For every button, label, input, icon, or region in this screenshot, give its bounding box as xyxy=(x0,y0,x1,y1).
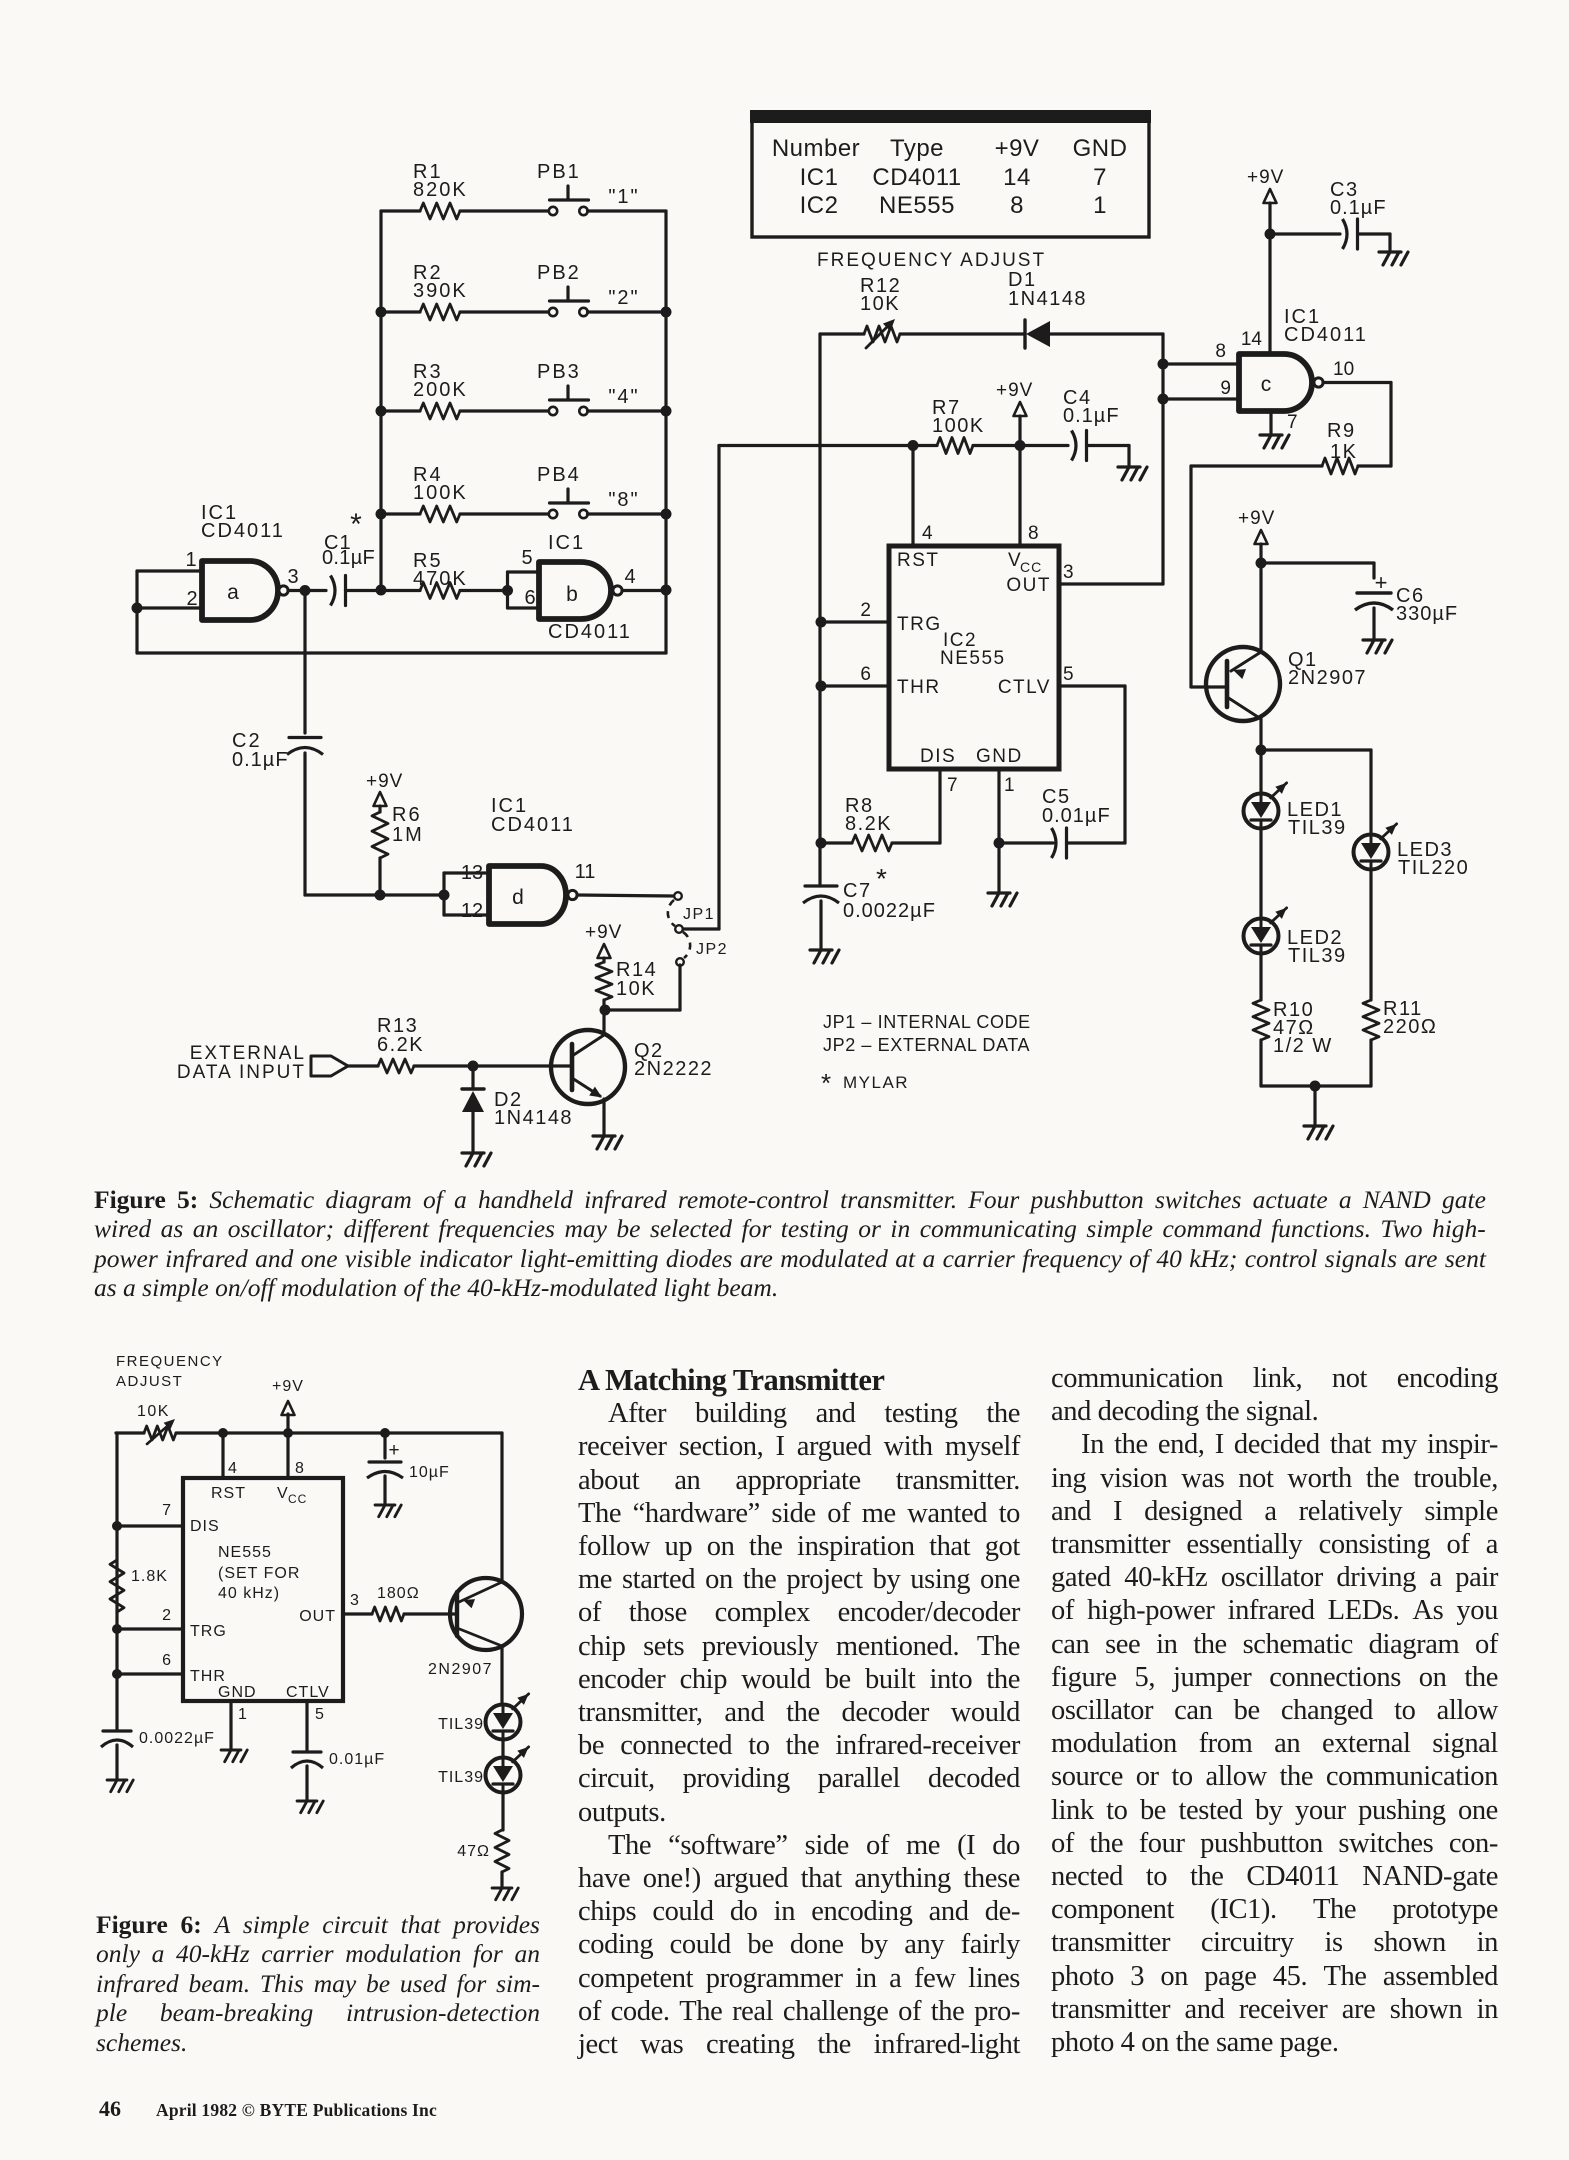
svg-text:8: 8 xyxy=(1028,523,1039,544)
svg-text:DIS: DIS xyxy=(920,746,956,767)
svg-text:CTLV: CTLV xyxy=(286,1684,330,1701)
fig6 pin8 stub xyxy=(288,1433,304,1478)
led LED1 xyxy=(1244,783,1347,839)
svg-text:OUT: OUT xyxy=(299,1608,336,1625)
svg-text:13: 13 xyxy=(461,862,483,884)
svg-text:FREQUENCY ADJUST: FREQUENCY ADJUST xyxy=(817,250,1046,271)
svg-text:+: + xyxy=(388,1440,399,1461)
svg-text:MYLAR: MYLAR xyxy=(843,1073,909,1092)
fig6 ground 0.01uF xyxy=(297,1800,317,1803)
svg-text:14: 14 xyxy=(1241,329,1263,350)
svg-text:0.1µF: 0.1µF xyxy=(1063,405,1120,427)
svg-text:"8": "8" xyxy=(608,489,639,511)
svg-text:DIS: DIS xyxy=(190,1518,220,1535)
svg-text:0.0022µF: 0.0022µF xyxy=(139,1730,215,1747)
svg-text:8: 8 xyxy=(1010,192,1024,219)
+9V supply R14 xyxy=(585,922,622,962)
transistor Q1 xyxy=(1206,647,1367,721)
ground C4 xyxy=(1118,465,1140,468)
resistor R2 xyxy=(381,262,549,320)
svg-text:RST: RST xyxy=(211,1485,246,1502)
svg-text:5: 5 xyxy=(521,547,532,569)
wire left bus xyxy=(379,211,382,590)
svg-text:9: 9 xyxy=(1220,378,1231,399)
svg-text:CTLV: CTLV xyxy=(998,677,1051,698)
svg-text:0.01µF: 0.01µF xyxy=(1042,805,1111,827)
+9V supply nand-c xyxy=(1247,167,1284,354)
svg-text:CD4011: CD4011 xyxy=(201,520,285,542)
svg-text:THR: THR xyxy=(897,677,941,698)
wire C5 to CTLV xyxy=(1123,686,1126,843)
svg-text:CD4011: CD4011 xyxy=(491,814,575,836)
fig6 pin6 THR wire xyxy=(112,1652,183,1679)
footer xyxy=(99,2096,437,2122)
resistor R8 xyxy=(816,795,941,851)
led LED2 xyxy=(1244,908,1347,967)
ground C3 xyxy=(1379,250,1401,253)
led LED3 xyxy=(1354,824,1470,879)
wire PB1 to right bus xyxy=(588,209,667,212)
diode D1 xyxy=(1008,269,1163,348)
fig6 transistor 2N2907 xyxy=(428,1578,522,1678)
fig6 resistor 1.8K xyxy=(110,1560,168,1612)
fig6 left bus xyxy=(115,1433,118,1730)
svg-text:0.01µF: 0.01µF xyxy=(329,1751,385,1768)
wire Q2 emitter xyxy=(602,1099,605,1134)
svg-text:2N2222: 2N2222 xyxy=(634,1058,713,1080)
svg-text:1: 1 xyxy=(238,1706,247,1723)
fig6 capacitor 0.01uF xyxy=(291,1751,385,1799)
svg-text:JP2 – EXTERNAL DATA: JP2 – EXTERNAL DATA xyxy=(823,1035,1030,1055)
middle column xyxy=(578,1364,1020,2061)
svg-text:220Ω: 220Ω xyxy=(1383,1016,1437,1038)
svg-text:11: 11 xyxy=(575,861,596,883)
svg-text:JP1: JP1 xyxy=(683,906,715,923)
external data input flag xyxy=(177,1043,348,1083)
figure 6 caption xyxy=(96,1910,540,2057)
svg-text:ADJUST: ADJUST xyxy=(116,1373,183,1390)
svg-text:EXTERNAL: EXTERNAL xyxy=(190,1043,306,1064)
wire 555 left bus xyxy=(818,622,821,886)
svg-text:TIL220: TIL220 xyxy=(1398,857,1469,879)
wire C2 to nand-d xyxy=(305,890,450,901)
fig6 label frequency adjust xyxy=(116,1353,224,1390)
parts table text xyxy=(772,135,1128,219)
svg-text:+9V: +9V xyxy=(366,771,403,792)
svg-text:100K: 100K xyxy=(413,482,468,504)
fig6 led TIL39 upper xyxy=(438,1694,529,1740)
svg-text:4: 4 xyxy=(624,566,635,588)
svg-text:4: 4 xyxy=(228,1460,237,1477)
note mylar xyxy=(821,1068,909,1098)
fig6 potentiometer 10K xyxy=(116,1403,502,1444)
svg-text:8: 8 xyxy=(1215,341,1226,362)
svg-text:820K: 820K xyxy=(413,179,468,201)
svg-text:470K: 470K xyxy=(413,568,468,590)
svg-text:(SET FOR: (SET FOR xyxy=(218,1565,300,1582)
ground pin1 xyxy=(988,843,1017,906)
svg-text:RST: RST xyxy=(897,550,940,571)
svg-text:10K: 10K xyxy=(137,1403,170,1420)
wire nand-a output node 3 xyxy=(288,585,326,596)
nand gate IC1d xyxy=(444,795,595,924)
svg-text:390K: 390K xyxy=(413,280,468,302)
svg-text:JP2: JP2 xyxy=(696,941,728,958)
svg-text:1.8K: 1.8K xyxy=(131,1568,168,1585)
fig6 +9V supply xyxy=(272,1378,304,1438)
fig6 pin3 OUT wire and 180ohm xyxy=(343,1585,457,1621)
wire nand-d output 11 xyxy=(577,895,674,896)
pin 7 DIS stub xyxy=(940,769,958,843)
fig6 resistor 47ohm xyxy=(457,1793,509,1887)
svg-text:8.2K: 8.2K xyxy=(845,813,892,835)
capacitor C6 xyxy=(1261,563,1458,638)
fig6 NE555 labels xyxy=(190,1485,336,1701)
svg-text:TIL39: TIL39 xyxy=(438,1716,484,1733)
svg-text:NE555: NE555 xyxy=(879,192,955,219)
ground D2 xyxy=(462,1151,484,1154)
ground C7 xyxy=(810,948,832,951)
svg-text:1: 1 xyxy=(1004,775,1015,796)
pushbutton PB2 xyxy=(537,262,640,316)
svg-text:2: 2 xyxy=(860,600,871,621)
+9V supply Q1 xyxy=(1238,508,1275,652)
pin 1 GND stub xyxy=(994,769,1015,849)
svg-text:+9V: +9V xyxy=(996,380,1033,401)
svg-text:GND: GND xyxy=(1073,135,1128,162)
svg-text:3: 3 xyxy=(1063,562,1074,583)
fig6 wire between leds xyxy=(501,1740,504,1758)
resistor R9 xyxy=(1191,420,1391,474)
svg-text:+9V: +9V xyxy=(585,922,622,943)
svg-text:180Ω: 180Ω xyxy=(377,1585,420,1602)
ground LED chain xyxy=(1304,1124,1326,1127)
fig6 wire emitter to +9V rail xyxy=(500,1433,503,1582)
svg-text:12: 12 xyxy=(461,900,483,922)
wire JP2 to Q2 collector node xyxy=(605,965,680,1010)
fig6 pin4 stub xyxy=(218,1428,237,1478)
svg-text:10K: 10K xyxy=(860,293,900,315)
svg-text:+: + xyxy=(1375,570,1388,595)
svg-text:NE555: NE555 xyxy=(940,648,1006,669)
svg-text:8: 8 xyxy=(295,1460,304,1477)
wire PB2 to right bus xyxy=(588,310,667,313)
potentiometer R12 xyxy=(820,275,1025,348)
pin 6 THR wire xyxy=(816,664,890,692)
wire jumper line to R7 xyxy=(719,444,913,447)
svg-text:1N4148: 1N4148 xyxy=(1008,288,1087,310)
wire nand-c output 10 xyxy=(1323,383,1391,467)
svg-text:CC: CC xyxy=(1020,559,1042,575)
fig6 ground 47ohm xyxy=(492,1887,512,1890)
svg-text:3: 3 xyxy=(287,566,298,588)
fig6 wire collector to LEDs xyxy=(500,1646,503,1705)
wire LED bottoms xyxy=(1261,1040,1371,1124)
fig6 ground pin1 xyxy=(221,1749,241,1752)
svg-text:Number: Number xyxy=(772,135,860,162)
svg-text:PB3: PB3 xyxy=(537,361,581,383)
svg-text:FREQUENCY: FREQUENCY xyxy=(116,1353,224,1370)
wire Q2 collector xyxy=(602,1010,605,1035)
svg-text:1: 1 xyxy=(185,549,196,571)
svg-text:CD4011: CD4011 xyxy=(872,164,961,191)
svg-text:7: 7 xyxy=(1093,164,1107,191)
pin 5 CTLV wire xyxy=(1059,664,1125,686)
svg-text:10: 10 xyxy=(1333,359,1354,380)
fig6 NE555 box xyxy=(183,1478,343,1701)
svg-text:1/2 W: 1/2 W xyxy=(1273,1035,1333,1057)
wire R12 left leg down to 555 bus xyxy=(818,334,821,622)
fig6 pin5 CTLV stub xyxy=(307,1701,324,1751)
svg-text:IC1: IC1 xyxy=(548,532,585,554)
svg-text:0.1µF: 0.1µF xyxy=(232,749,289,771)
svg-text:1K: 1K xyxy=(1330,441,1357,463)
svg-text:THR: THR xyxy=(190,1668,226,1685)
svg-text:IC2: IC2 xyxy=(800,192,839,219)
wire R9 to Q1 base xyxy=(1191,466,1227,687)
svg-text:14: 14 xyxy=(1003,164,1031,191)
svg-text:*: * xyxy=(876,863,887,894)
wire PB4 to right bus xyxy=(588,512,667,515)
svg-text:6: 6 xyxy=(524,587,535,609)
pin 3 OUT wire xyxy=(1059,562,1163,584)
wire nand-a inputs xyxy=(132,571,203,653)
wire Q1 collector node xyxy=(1256,719,1372,835)
svg-text:CC: CC xyxy=(288,1492,307,1506)
junction dots left bus xyxy=(376,307,387,596)
pushbutton PB4 xyxy=(537,464,640,518)
svg-text:+9V: +9V xyxy=(1247,167,1284,188)
nand gate IC1a xyxy=(185,502,298,620)
+9V supply 555 xyxy=(996,380,1033,451)
capacitor C5 xyxy=(999,786,1125,858)
capacitor C2 xyxy=(232,730,323,895)
jumper JP1 xyxy=(668,892,715,926)
parts table frame xyxy=(752,112,1149,237)
pin 4 stub xyxy=(913,446,933,547)
svg-text:*: * xyxy=(350,508,362,541)
jumper JP2 xyxy=(675,925,728,966)
resistor R6 xyxy=(372,804,424,895)
svg-text:2N2907: 2N2907 xyxy=(1288,667,1367,689)
svg-text:TIL39: TIL39 xyxy=(438,1769,484,1786)
resistor R4 xyxy=(381,464,549,522)
ground C6 xyxy=(1363,638,1385,641)
+9V supply R6 xyxy=(366,771,403,812)
pin 2 TRG wire xyxy=(816,600,890,628)
svg-text:NE555: NE555 xyxy=(218,1544,272,1561)
ic IC2 NE555 box xyxy=(889,546,1059,769)
fig6 ground 10uF xyxy=(375,1504,395,1507)
figure 5 caption xyxy=(94,1185,1486,1303)
parts table header bar xyxy=(750,110,1151,123)
svg-text:100K: 100K xyxy=(932,415,985,437)
nand gate IC1c xyxy=(1215,306,1367,433)
right column xyxy=(1051,1362,1498,2059)
wire right bus xyxy=(664,211,667,653)
svg-text:PB1: PB1 xyxy=(537,161,581,183)
svg-text:0.1µF: 0.1µF xyxy=(1330,197,1387,219)
svg-text:CD4011: CD4011 xyxy=(548,621,632,643)
wire D1 to NAND c inputs and 555 OUT xyxy=(1158,334,1240,584)
svg-text:1N4148: 1N4148 xyxy=(494,1107,573,1129)
resistor R14 xyxy=(596,959,657,1010)
svg-text:TIL39: TIL39 xyxy=(1288,945,1347,967)
pushbutton PB1 xyxy=(537,161,640,215)
feedback wire bottom loop xyxy=(137,651,666,654)
transistor Q2 xyxy=(551,1030,713,1104)
svg-text:1M: 1M xyxy=(392,824,424,846)
svg-text:1: 1 xyxy=(1093,192,1107,219)
resistor R5 xyxy=(381,550,508,599)
svg-text:10µF: 10µF xyxy=(409,1464,450,1481)
pin 8 stub xyxy=(1020,446,1039,547)
svg-text:40 kHz): 40 kHz) xyxy=(218,1585,280,1602)
svg-text:+9V: +9V xyxy=(1238,508,1275,529)
svg-text:"4": "4" xyxy=(608,386,639,408)
svg-text:5: 5 xyxy=(1063,664,1074,685)
wire R13 to Q2 base xyxy=(468,1061,573,1072)
wire nand-b output to bus xyxy=(622,589,666,592)
fig6 pin7 DIS wire xyxy=(112,1502,183,1531)
fig6 capacitor 10uF xyxy=(367,1428,450,1503)
resistor R11 xyxy=(1363,870,1437,1041)
diode D2 xyxy=(462,1066,573,1151)
svg-text:a: a xyxy=(227,581,239,604)
svg-text:330µF: 330µF xyxy=(1396,603,1458,625)
resistor R1 xyxy=(381,161,549,219)
svg-text:c: c xyxy=(1261,373,1272,396)
wire LED1 to LED2 xyxy=(1259,829,1262,919)
svg-text:V: V xyxy=(277,1485,289,1502)
junction dots right bus xyxy=(661,307,672,596)
svg-text:7: 7 xyxy=(1287,412,1298,433)
capacitor C4 xyxy=(1020,387,1129,465)
svg-text:200K: 200K xyxy=(413,379,468,401)
fig6 capacitor 0.0022uF xyxy=(101,1730,215,1778)
fig6 ground left xyxy=(107,1779,127,1782)
svg-text:JP1 – INTERNAL CODE: JP1 – INTERNAL CODE xyxy=(823,1012,1031,1032)
svg-text:6: 6 xyxy=(860,664,871,685)
svg-text:*: * xyxy=(821,1068,831,1098)
svg-text:5: 5 xyxy=(315,1706,324,1723)
capacitor C7 xyxy=(803,863,936,948)
svg-text:+9V: +9V xyxy=(272,1378,304,1395)
svg-text:GND: GND xyxy=(976,746,1023,767)
fig6 pin2 TRG wire xyxy=(112,1607,183,1634)
svg-text:d: d xyxy=(512,886,524,909)
svg-text:b: b xyxy=(566,583,578,606)
pin 7 ground nand-c xyxy=(1260,411,1289,448)
svg-text:2N2907: 2N2907 xyxy=(428,1661,493,1678)
svg-text:IC1: IC1 xyxy=(800,164,839,191)
svg-text:Type: Type xyxy=(890,135,944,162)
capacitor C3 xyxy=(1270,179,1390,250)
nand gate IC1b xyxy=(502,532,636,643)
svg-text:CD4011: CD4011 xyxy=(1284,324,1368,346)
svg-text:R6: R6 xyxy=(392,804,422,826)
svg-text:DATA INPUT: DATA INPUT xyxy=(177,1062,306,1083)
svg-text:PB2: PB2 xyxy=(537,262,581,284)
svg-text:10K: 10K xyxy=(616,978,656,1000)
svg-text:3: 3 xyxy=(350,1592,359,1609)
svg-text:0.1µF: 0.1µF xyxy=(322,547,375,569)
ground Q2 emitter xyxy=(593,1134,615,1137)
svg-text:6.2K: 6.2K xyxy=(377,1034,424,1056)
pushbutton PB3 xyxy=(537,361,640,415)
svg-text:GND: GND xyxy=(218,1684,257,1701)
svg-text:R9: R9 xyxy=(1327,420,1356,442)
node R14-JP2-Q2 xyxy=(600,1005,611,1016)
resistor R3 xyxy=(381,361,549,419)
svg-text:2: 2 xyxy=(162,1607,171,1624)
svg-text:TRG: TRG xyxy=(897,614,942,635)
svg-text:7: 7 xyxy=(162,1502,171,1519)
svg-text:OUT: OUT xyxy=(1006,575,1051,596)
svg-text:0.0022µF: 0.0022µF xyxy=(843,900,936,922)
svg-text:"1": "1" xyxy=(608,186,639,208)
wire node3 down xyxy=(303,591,306,734)
fig6 led TIL39 lower xyxy=(438,1747,529,1793)
capacitor C1 xyxy=(322,508,381,606)
svg-text:C7: C7 xyxy=(843,880,872,902)
svg-text:"2": "2" xyxy=(608,287,639,309)
wire PB3 to right bus xyxy=(588,409,667,412)
svg-text:4: 4 xyxy=(922,523,933,544)
resistor R10 xyxy=(1253,954,1269,1041)
resistor R13 xyxy=(348,1015,473,1073)
svg-text:TIL39: TIL39 xyxy=(1288,817,1347,839)
svg-text:47Ω: 47Ω xyxy=(457,1843,490,1860)
svg-text:TRG: TRG xyxy=(190,1623,227,1640)
svg-text:+9V: +9V xyxy=(995,135,1040,162)
svg-text:PB4: PB4 xyxy=(537,464,581,486)
ic IC2 labels xyxy=(897,550,1051,767)
resistor R7 xyxy=(908,397,1021,454)
wire JP common to R7 line xyxy=(683,446,719,930)
svg-text:6: 6 xyxy=(162,1652,171,1669)
svg-text:7: 7 xyxy=(947,775,958,796)
fig6 pin1 GND stub xyxy=(231,1701,247,1748)
